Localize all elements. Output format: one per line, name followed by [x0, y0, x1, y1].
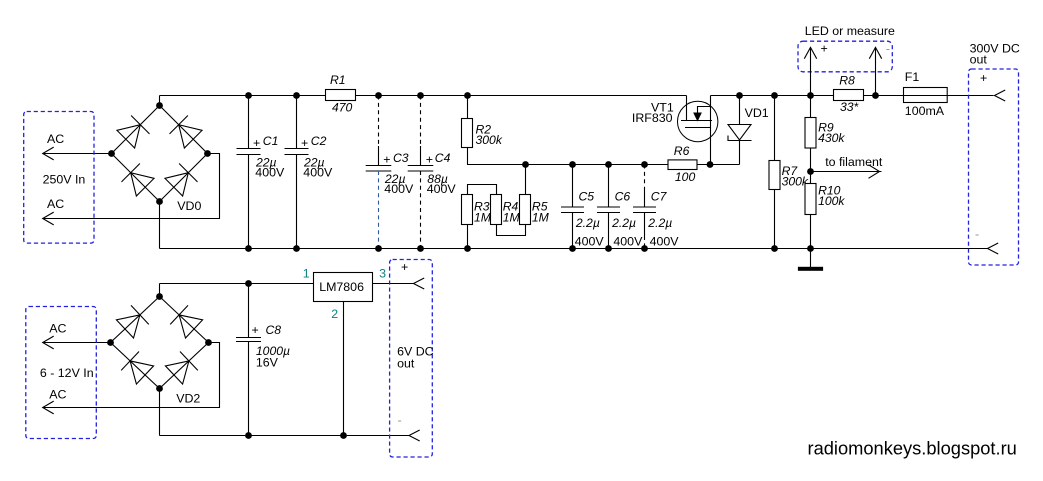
junction ground/bottom bus — [807, 245, 814, 252]
wire VD2 right corner to AC input 4 — [43, 343, 220, 408]
svg-text:+: + — [401, 260, 408, 274]
junction C7/bottom bus — [641, 245, 648, 252]
junction R5/gate rail — [522, 161, 529, 168]
capacitor C3 upper dashed lead — [378, 96, 380, 147]
wire bottom bus 0V — [160, 248, 988, 250]
svg-text:1M: 1M — [474, 211, 492, 225]
junction R3/bottom bus — [464, 245, 471, 252]
svg-text:16V: 16V — [256, 356, 279, 370]
svg-text:to filament: to filament — [825, 155, 883, 169]
svg-text:2.2µ: 2.2µ — [575, 216, 600, 230]
resistor R5 — [520, 195, 531, 225]
wire AC input 3 to VD2 left corner — [43, 342, 111, 344]
fuse F1 — [904, 88, 948, 103]
diode VD2 top-right — [170, 305, 203, 338]
resistor R8 — [834, 90, 864, 101]
wire ground stem — [810, 249, 812, 268]
capacitor C1 leads — [248, 96, 250, 249]
diode VD1 anode lead — [739, 96, 741, 125]
svg-text:VD0: VD0 — [177, 199, 201, 213]
svg-text:2.2µ: 2.2µ — [611, 216, 636, 230]
AC input terminal block 6-12V (dashed) — [26, 307, 97, 439]
svg-text:+: + — [252, 323, 259, 337]
capacitor C3 lower dashed lead (blue) — [378, 171, 380, 249]
svg-text:250V In: 250V In — [43, 172, 86, 186]
diode VD2 top-left — [116, 305, 149, 338]
svg-text:+: + — [253, 136, 260, 150]
terminal arrow AC lower — [43, 212, 54, 225]
wire VD0 right corner to AC input 2 — [43, 154, 220, 219]
junction C2/top bus — [293, 92, 300, 99]
regulator U1 LM7806 — [314, 273, 373, 302]
svg-text:1M: 1M — [532, 211, 550, 225]
junction VD2 AC left corner — [107, 339, 114, 346]
svg-text:-: - — [398, 413, 402, 427]
svg-text:-: - — [975, 227, 979, 241]
wire gate RC rail (R2 bottom to R6) — [468, 148, 669, 165]
ground — [798, 267, 823, 271]
svg-text:+: + — [301, 136, 308, 150]
svg-text:100: 100 — [675, 170, 696, 184]
svg-text:400V: 400V — [255, 166, 285, 180]
svg-text:radiomonkeys.blogspot.ru: radiomonkeys.blogspot.ru — [808, 438, 1017, 459]
resistor R7 — [769, 161, 780, 190]
svg-text:100k: 100k — [818, 194, 845, 208]
transistor VT1 substrate link — [698, 107, 711, 114]
junction C3/top bus — [375, 92, 382, 99]
capacitor C4 upper dashed lead — [420, 96, 422, 147]
capacitor C8 plates — [236, 338, 261, 342]
svg-text:400V: 400V — [427, 182, 457, 196]
junction VD0 - corner — [156, 198, 163, 205]
wire LM7806 out to 6V + terminal — [373, 283, 414, 285]
wire VD0 top corner to top bus — [159, 96, 161, 106]
diode VD0 top-left — [117, 116, 150, 149]
junction C8 top — [245, 280, 252, 287]
svg-text:R8: R8 — [839, 74, 855, 88]
svg-text:C7: C7 — [651, 190, 668, 204]
junction VD2 AC right corner — [205, 339, 212, 346]
junction VD2 + corner — [156, 293, 163, 300]
resistor R3 — [462, 195, 473, 225]
diode VD0 bottom-right — [165, 164, 198, 197]
wire VD2 bottom corner to rail — [159, 389, 161, 436]
svg-text:C4: C4 — [435, 151, 451, 165]
svg-text:C5: C5 — [579, 190, 595, 204]
capacitor C8 lower lead — [248, 342, 250, 436]
diode VD2 bottom-left — [121, 351, 154, 384]
resistor R4 — [491, 195, 502, 225]
svg-text:C2: C2 — [311, 134, 327, 148]
svg-text:C1: C1 — [263, 134, 279, 148]
wire R3-R4 top link — [468, 185, 497, 195]
capacitor C6 plates — [597, 207, 620, 213]
svg-text:400V: 400V — [650, 235, 680, 249]
wire R5 top lead to gate rail — [525, 165, 527, 195]
resistor R2 — [462, 119, 473, 148]
terminal arrow AC upper — [43, 147, 54, 160]
junction gate node (R6/VD1/gate) — [707, 161, 714, 168]
resistor R10 — [805, 184, 816, 215]
svg-text:+: + — [426, 153, 433, 167]
wire R3 bottom lead to bottom bus — [467, 225, 469, 249]
junction C8 bottom — [245, 432, 252, 439]
capacitor C6 upper lead — [608, 165, 610, 208]
transistor VT1 channel bar — [681, 120, 712, 122]
diode VD0 top-right — [170, 116, 203, 149]
terminal arrow to filament — [869, 165, 880, 179]
resistor R9 top lead — [810, 96, 812, 118]
svg-text:400V: 400V — [384, 182, 414, 196]
svg-text:F1: F1 — [905, 70, 920, 84]
terminal arrow 6V + — [414, 278, 425, 289]
capacitor C4 upper lead — [420, 146, 422, 166]
terminal arrow 300V + — [995, 90, 1006, 101]
junction VD2 - corner — [156, 385, 163, 392]
transistor VT1 source and gate lead — [710, 96, 712, 165]
capacitor C7 upper dashed lead — [644, 165, 646, 191]
diode VD2 bottom-right — [165, 351, 198, 384]
capacitor C4 plates — [408, 166, 434, 172]
capacitor C1 plates — [237, 149, 261, 155]
wire heater rail top (VD2 + to LM7806 in) — [160, 283, 314, 285]
6V DC output terminal block (dashed) — [390, 260, 433, 458]
capacitor C8 upper lead — [248, 284, 250, 338]
resistor R10 bottom lead — [810, 215, 812, 249]
junction C1/bottom bus — [245, 245, 252, 252]
capacitor C2 leads — [296, 96, 298, 249]
svg-text:out: out — [397, 357, 415, 371]
LED or measure terminal block (dashed) — [798, 41, 892, 72]
svg-text:2: 2 — [331, 307, 338, 321]
svg-text:C6: C6 — [615, 190, 631, 204]
wire heater rail bottom 0V — [160, 435, 410, 437]
svg-text:400V: 400V — [575, 235, 605, 249]
svg-text:+: + — [383, 153, 390, 167]
capacitor C7 lower dashed lead — [644, 236, 646, 249]
wire VD0 bottom corner to bottom bus — [159, 202, 161, 249]
diode VD0 bottom-left — [122, 164, 155, 197]
svg-text:LED or measure: LED or measure — [805, 24, 895, 38]
resistor R9 — [805, 118, 816, 149]
300V DC output terminal block (dashed) — [969, 69, 1019, 265]
terminal arrow 6V - — [409, 430, 420, 441]
junction C4/bottom bus — [417, 245, 424, 252]
wire top bus raw DC (bridge VD0 output to VT1 drain) — [160, 95, 687, 97]
junction C5/bottom bus — [569, 245, 576, 252]
terminal arrow LED - head — [869, 47, 881, 58]
resistor R7 top lead — [774, 96, 776, 161]
svg-text:out: out — [970, 53, 988, 67]
terminal arrow LED - (wire) — [875, 47, 877, 95]
junction C7/gate rail — [641, 161, 648, 168]
junction pin2/rail — [340, 432, 347, 439]
svg-text:AC: AC — [47, 197, 64, 211]
svg-text:AC: AC — [49, 322, 66, 336]
wire AC input 1 to VD0 left corner — [43, 153, 112, 155]
capacitor C5 lower lead — [572, 213, 574, 249]
bridge rectifier VD0 diamond — [112, 106, 208, 202]
wire R4-R5 bottom link — [497, 225, 526, 236]
wire LM7806 pin 2 to rail — [343, 302, 345, 436]
svg-text:VD2: VD2 — [176, 392, 200, 406]
wire R6 to gate node — [697, 164, 740, 166]
svg-text:+: + — [821, 42, 828, 56]
svg-text:C8: C8 — [266, 323, 282, 337]
svg-text:+: + — [980, 71, 987, 85]
junction C6/gate rail — [605, 161, 612, 168]
svg-text:IRF830: IRF830 — [632, 111, 673, 125]
junction LED-/top bus — [872, 92, 879, 99]
svg-text:-: - — [886, 42, 890, 56]
svg-text:470: 470 — [332, 101, 353, 115]
svg-text:AC: AC — [47, 132, 64, 146]
resistor R7 bottom lead — [774, 190, 776, 249]
terminal arrow AC heater upper — [43, 336, 54, 349]
terminal arrow LED + head — [804, 47, 816, 58]
junction VD0 AC left corner — [108, 150, 115, 157]
junction R2/top bus — [464, 92, 471, 99]
svg-text:1: 1 — [303, 267, 310, 281]
svg-text:400V: 400V — [613, 235, 643, 249]
capacitor C5 plates — [561, 207, 584, 213]
capacitor C3 upper lead — [378, 146, 380, 166]
svg-text:100mA: 100mA — [905, 104, 945, 118]
svg-text:LM7806: LM7806 — [319, 280, 364, 294]
capacitor C7 lower lead — [644, 213, 646, 237]
resistor R2 top lead — [467, 96, 469, 119]
diode VD1 cathode bar with tick — [728, 136, 752, 141]
terminal arrow AC heater lower — [43, 401, 54, 414]
junction VD1/top bus — [736, 92, 743, 99]
terminal arrow LED + (wire) — [810, 47, 812, 95]
svg-text:400V: 400V — [303, 166, 333, 180]
transistor VT1 gate bar — [685, 127, 711, 129]
wire top bus filtered 300V (VT1 source to F1 and + output) — [711, 95, 994, 97]
capacitor C7 upper lead — [644, 190, 646, 207]
junction VD0 + corner — [156, 102, 163, 109]
svg-text:33*: 33* — [840, 100, 860, 114]
junction C2/bottom bus — [293, 245, 300, 252]
bridge rectifier VD2 diamond — [111, 297, 209, 389]
svg-text:6 - 12V In: 6 - 12V In — [40, 366, 94, 380]
resistor R6 — [668, 160, 697, 170]
capacitor C6 lower lead — [608, 213, 610, 249]
capacitor C7 plates — [633, 207, 656, 213]
junction C1/top bus — [245, 92, 252, 99]
svg-text:C3: C3 — [393, 151, 409, 165]
svg-text:3: 3 — [379, 267, 386, 281]
svg-text:2.2µ: 2.2µ — [647, 216, 672, 230]
transistor VT1 drain lead — [686, 96, 688, 121]
wire VD2 top corner to rail — [159, 284, 161, 297]
capacitor C5 upper lead — [572, 165, 574, 208]
junction R7/top bus — [771, 92, 778, 99]
svg-text:300k: 300k — [476, 133, 503, 147]
junction R7/bottom bus — [771, 245, 778, 252]
diode VD1 triangle — [728, 125, 751, 141]
resistor R1 — [326, 90, 356, 101]
svg-text:AC: AC — [49, 387, 66, 401]
capacitor C2 plates — [285, 149, 309, 155]
junction C3/bottom bus — [375, 245, 382, 252]
junction C5/gate rail — [569, 161, 576, 168]
terminal arrow 300V - — [988, 243, 999, 254]
wire to filament tap — [811, 171, 882, 173]
junction LED+/top bus — [807, 92, 814, 99]
transistor VT1 substrate arrow — [694, 113, 701, 120]
resistor R9 bottom lead — [810, 148, 812, 172]
capacitor C3 plates — [366, 166, 392, 172]
junction VD0 AC right corner — [204, 150, 211, 157]
svg-text:430k: 430k — [818, 131, 845, 145]
junction C4/top bus — [417, 92, 424, 99]
resistor R10 top lead — [810, 172, 812, 184]
svg-text:1M: 1M — [503, 211, 521, 225]
svg-text:R1: R1 — [330, 73, 346, 87]
capacitor C4 lower dashed lead — [420, 171, 422, 249]
junction C6/bottom bus — [605, 245, 612, 252]
svg-text:VD1: VD1 — [745, 106, 769, 120]
wire VD1 cathode to gate rail — [739, 141, 741, 165]
AC input terminal block 250V (dashed) — [24, 112, 94, 244]
svg-text:R6: R6 — [674, 144, 690, 158]
transistor VT1 body circle — [678, 101, 718, 141]
junction filament tap node — [807, 168, 814, 175]
